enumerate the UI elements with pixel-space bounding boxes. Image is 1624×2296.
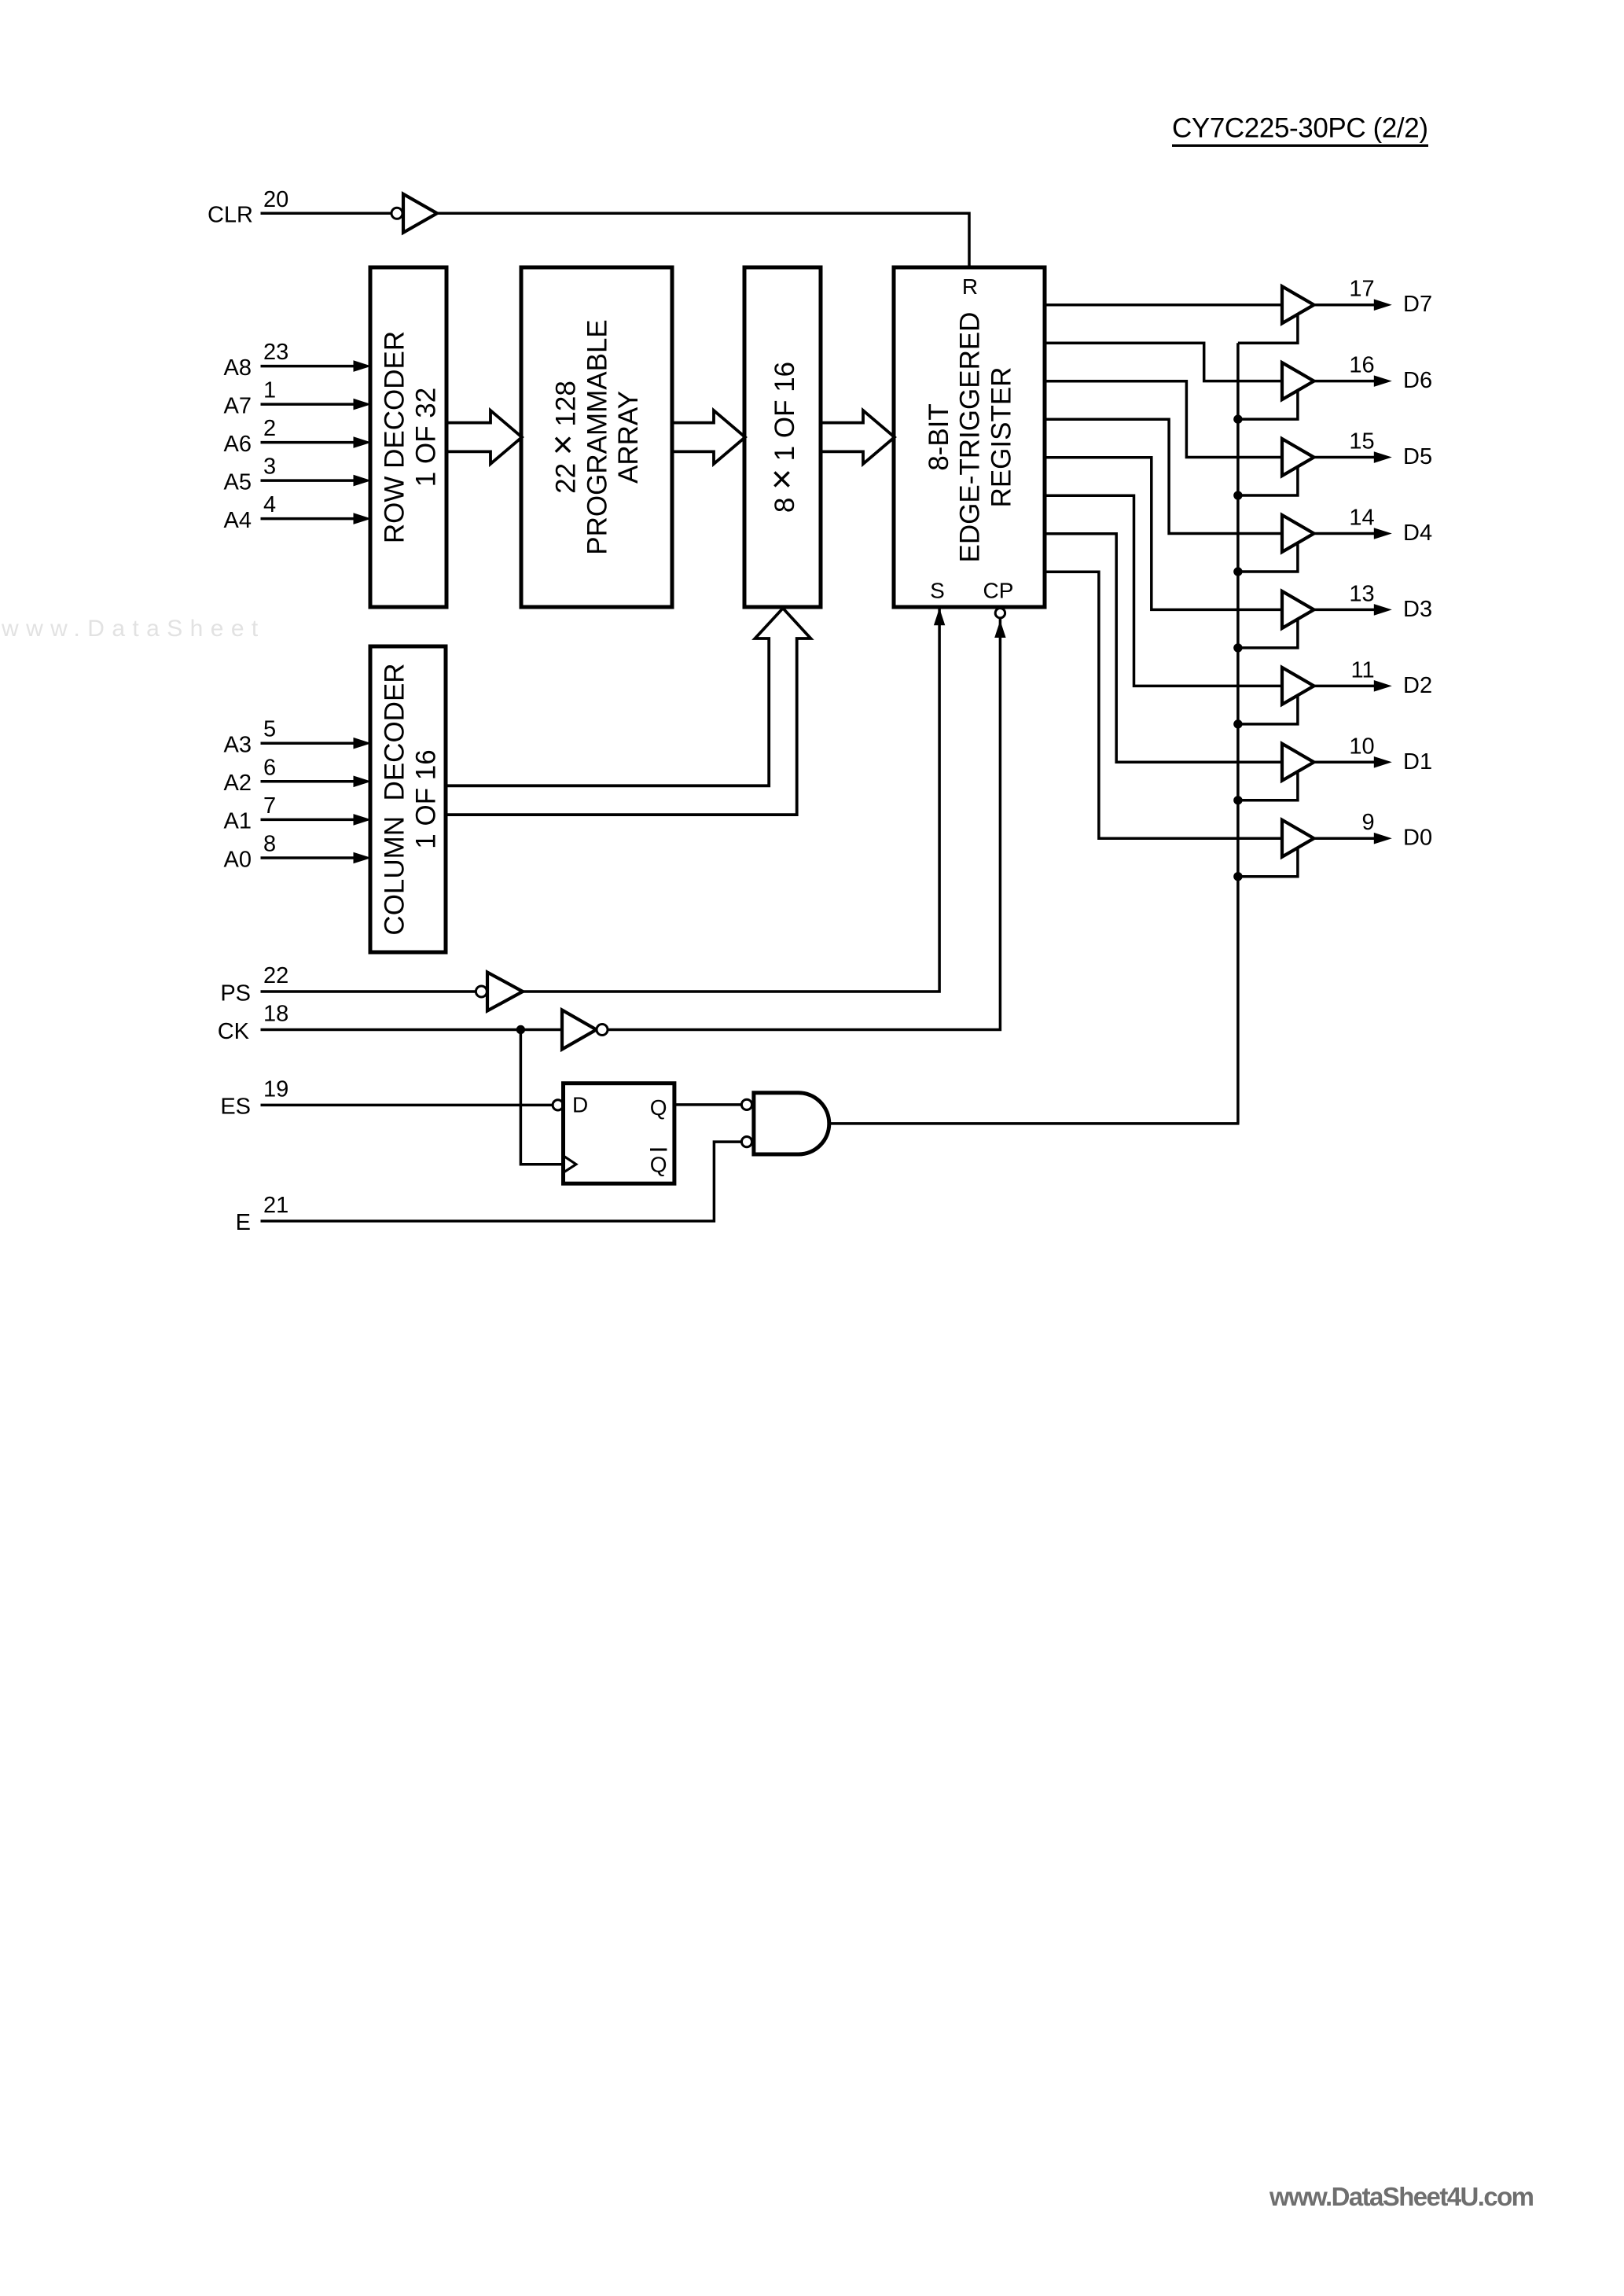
wire D5 output — [1314, 451, 1392, 463]
input label A8 — [224, 355, 252, 381]
svg-text:D0: D0 — [1403, 826, 1432, 851]
junction dot on enable rail at D1 — [1233, 796, 1242, 804]
svg-text:D6: D6 — [1403, 368, 1432, 393]
svg-text:10: 10 — [1349, 734, 1374, 759]
wire A8 into row decoder — [261, 360, 372, 372]
output buffer U7a for D7 — [1282, 286, 1314, 323]
svg-text:PS: PS — [220, 981, 251, 1006]
junction dot on enable rail at D3 — [1233, 643, 1242, 652]
svg-text:A7: A7 — [224, 393, 252, 418]
pin 2 — [263, 416, 276, 441]
svg-text:14: 14 — [1349, 505, 1374, 530]
pin 19 — [263, 1076, 288, 1102]
wire register output Q1 to D1 buffer — [1045, 534, 1284, 763]
pin 14 — [1349, 505, 1374, 530]
svg-text:21: 21 — [263, 1193, 288, 1218]
input label ES — [220, 1095, 251, 1120]
wire enable rail to D3 buffer — [1238, 618, 1298, 648]
pin label S of register — [930, 579, 945, 603]
svg-text:13: 13 — [1349, 581, 1374, 606]
watermark www.DataSheet — [1, 616, 266, 642]
watermark www.DataSheet4U.com — [1269, 2182, 1534, 2211]
input label A7 — [224, 393, 252, 418]
svg-text:6: 6 — [263, 755, 276, 780]
svg-text:R: R — [962, 274, 978, 299]
junction dot on enable rail at D6 — [1233, 414, 1242, 423]
pin 21 — [263, 1193, 288, 1218]
block U1 ROW DECODER 1 OF 32 — [370, 267, 446, 607]
wire AND gate output to enable rail — [829, 1122, 1240, 1125]
pin 23 — [263, 340, 288, 365]
block U3 8 x 1 OF 16 multiplexer — [744, 267, 821, 607]
output buffer U7h for D0 — [1282, 820, 1314, 857]
svg-text:23: 23 — [263, 340, 288, 365]
wire A1 into column decoder — [261, 814, 372, 826]
svg-text:ARRAY: ARRAY — [613, 391, 644, 484]
output label D4 — [1403, 521, 1432, 546]
wire D7 output — [1314, 299, 1392, 311]
wire D4 output — [1314, 528, 1392, 539]
wire enable rail to D1 buffer — [1238, 771, 1298, 800]
junction dot CK node — [516, 1025, 525, 1034]
input label A2 — [224, 771, 252, 796]
svg-text:CY7C225-30PC (2/2): CY7C225-30PC (2/2) — [1172, 113, 1428, 144]
bus arrow column decoder to 8x1 multiplexer — [446, 609, 810, 815]
svg-text:16: 16 — [1349, 353, 1374, 378]
svg-text:Q: Q — [650, 1095, 667, 1120]
pin 5 — [263, 717, 276, 742]
output label D1 — [1403, 749, 1432, 775]
wire flip-flop Q to AND gate — [674, 1103, 742, 1106]
output buffer U7c for D5 — [1282, 439, 1314, 476]
wire A0 into column decoder — [261, 852, 372, 864]
svg-text:19: 19 — [263, 1076, 288, 1102]
pin 1 — [263, 378, 276, 403]
wire enable rail to D4 buffer — [1238, 542, 1298, 572]
output label D2 — [1403, 673, 1432, 698]
svg-text:A2: A2 — [224, 771, 252, 796]
wire output enable rail — [1236, 343, 1240, 1124]
junction dot on enable rail at D2 — [1233, 719, 1242, 728]
bus arrow row decoder to array — [446, 410, 522, 464]
svg-text:ES: ES — [220, 1095, 251, 1120]
wire register output Q6 to D6 buffer — [1045, 343, 1284, 381]
svg-text:D3: D3 — [1403, 597, 1432, 622]
pin 8 — [263, 832, 276, 857]
svg-text:CK: CK — [218, 1019, 250, 1044]
bubble on flip-flop D input — [553, 1100, 563, 1110]
wire D2 output — [1314, 680, 1392, 692]
output label D7 — [1403, 292, 1432, 317]
input label CK — [218, 1019, 250, 1044]
input label A3 — [224, 733, 252, 758]
input label A5 — [224, 469, 252, 495]
svg-text:20: 20 — [263, 187, 288, 212]
svg-text:PROGRAMMABLE: PROGRAMMABLE — [582, 319, 612, 555]
pin 22 — [263, 963, 288, 988]
pin 18 — [263, 1002, 288, 1027]
input label A1 — [224, 809, 252, 834]
svg-text:A4: A4 — [224, 508, 252, 533]
svg-text:D4: D4 — [1403, 521, 1432, 546]
bus arrow 8x1 multiplexer to register — [821, 410, 895, 464]
svg-text:7: 7 — [263, 793, 276, 819]
wire D6 output — [1314, 375, 1392, 387]
junction dot on enable rail at D5 — [1233, 491, 1242, 499]
block U2 22 x 128 PROGRAMMABLE ARRAY — [521, 267, 672, 607]
pin 17 — [1349, 277, 1374, 302]
block U6 COLUMN DECODER 1 OF 16 — [370, 646, 446, 952]
svg-text:E: E — [236, 1210, 251, 1235]
wire register output Q7 to D7 buffer — [1045, 304, 1284, 307]
input label PS — [220, 981, 251, 1006]
wire D0 output — [1314, 833, 1392, 844]
svg-text:D1: D1 — [1403, 749, 1432, 775]
output buffer U7g for D1 — [1282, 744, 1314, 781]
wire register output Q2 to D2 buffer — [1045, 495, 1284, 686]
block U4 8-BIT EDGE-TRIGGERED REGISTER — [894, 267, 1045, 607]
inverter U9 on CK — [562, 1010, 608, 1050]
pin 3 — [263, 454, 276, 480]
wire enable rail to D7 buffer — [1238, 314, 1298, 344]
svg-text:17: 17 — [1349, 277, 1374, 302]
wire PS input — [261, 990, 476, 993]
svg-text:REGISTER: REGISTER — [987, 367, 1017, 508]
wire register output Q4 to D4 buffer — [1045, 419, 1284, 533]
svg-text:S: S — [930, 579, 945, 603]
pin 9 — [1361, 810, 1374, 835]
svg-text:3: 3 — [263, 454, 276, 480]
svg-text:1: 1 — [263, 378, 276, 403]
svg-text:4: 4 — [263, 492, 276, 517]
wire A2 into column decoder — [261, 776, 372, 788]
wire E to AND gate input — [261, 1142, 742, 1221]
svg-text:11: 11 — [1350, 657, 1374, 683]
pin label CP of register — [983, 579, 1014, 603]
wire enable rail to D2 buffer — [1238, 694, 1298, 724]
svg-text:5: 5 — [263, 717, 276, 742]
pin 6 — [263, 755, 276, 780]
wire A5 into row decoder — [261, 475, 372, 487]
input label A6 — [224, 432, 252, 457]
svg-text:A0: A0 — [224, 847, 252, 872]
pin 7 — [263, 793, 276, 819]
svg-text:1 OF 16: 1 OF 16 — [411, 749, 442, 848]
wire ES input — [261, 1104, 553, 1107]
output label D5 — [1403, 444, 1432, 469]
wire CLR input — [261, 212, 392, 215]
junction dot on enable rail at D0 — [1233, 872, 1242, 881]
wire CLR buffer to register R input — [437, 213, 969, 267]
wire CK input — [261, 1028, 563, 1032]
output label D0 — [1403, 826, 1432, 851]
svg-text:A8: A8 — [224, 355, 252, 381]
output buffer U7d for D4 — [1282, 515, 1314, 552]
AND gate U11 — [741, 1093, 829, 1154]
wire enable rail to D0 buffer — [1238, 847, 1298, 877]
svg-text:18: 18 — [263, 1002, 288, 1027]
output buffer U7f for D2 — [1282, 668, 1314, 705]
inverting buffer U8 on PS — [476, 973, 523, 1011]
svg-text:2: 2 — [263, 416, 276, 441]
wire CK node to flip-flop clock — [520, 1030, 563, 1165]
pin 10 — [1349, 734, 1374, 759]
wire A6 into row decoder — [261, 436, 372, 448]
junction dot on enable rail at D4 — [1233, 567, 1242, 576]
inverting buffer U5 on CLR — [391, 194, 437, 233]
svg-text:D: D — [572, 1092, 588, 1117]
input label E — [236, 1210, 251, 1235]
input label A4 — [224, 508, 252, 533]
wire D3 output — [1314, 604, 1392, 616]
pin label R of register — [962, 274, 978, 299]
D flip-flop U10 — [564, 1084, 674, 1184]
input label A0 — [224, 847, 252, 872]
wire register output Q3 to D3 buffer — [1045, 458, 1284, 610]
pin 11 — [1350, 657, 1374, 683]
svg-text:CLR: CLR — [208, 203, 253, 228]
wire A3 into column decoder — [261, 738, 372, 749]
output label D3 — [1403, 597, 1432, 622]
svg-text:8: 8 — [263, 832, 276, 857]
svg-text:www.DataSheet: www.DataSheet — [1, 616, 266, 642]
svg-text:www.DataSheet4U.com: www.DataSheet4U.com — [1269, 2182, 1534, 2211]
output label D6 — [1403, 368, 1432, 393]
wire A7 into row decoder — [261, 399, 372, 410]
wire PS buffer to register S input — [523, 608, 945, 992]
svg-text:D7: D7 — [1403, 292, 1432, 317]
svg-text:Q: Q — [650, 1153, 667, 1177]
wire register output Q0 to D0 buffer — [1045, 572, 1284, 838]
wire register output Q5 to D5 buffer — [1045, 381, 1284, 458]
svg-text:COLUMN DECODER: COLUMN DECODER — [380, 663, 410, 935]
wire CK inverter to register CP input — [608, 618, 1006, 1030]
svg-text:A3: A3 — [224, 733, 252, 758]
title CY7C225-30PC (2/2) — [1172, 113, 1428, 147]
wire D1 output — [1314, 756, 1392, 768]
svg-text:CP: CP — [983, 579, 1014, 603]
bus arrow array to 8x1 multiplexer — [672, 410, 745, 464]
output buffer U7b for D6 — [1282, 362, 1314, 399]
svg-text:1 OF 32: 1 OF 32 — [411, 388, 442, 487]
pin 16 — [1349, 353, 1374, 378]
pin 13 — [1349, 581, 1374, 606]
svg-text:9: 9 — [1361, 810, 1374, 835]
svg-text:8-BIT: 8-BIT — [924, 403, 954, 471]
svg-text:D2: D2 — [1403, 673, 1432, 698]
svg-text:A1: A1 — [224, 809, 252, 834]
svg-text:A6: A6 — [224, 432, 252, 457]
wire enable rail to D5 buffer — [1238, 466, 1298, 496]
svg-text:D5: D5 — [1403, 444, 1432, 469]
svg-text:EDGE-TRIGGERED: EDGE-TRIGGERED — [955, 312, 986, 563]
svg-text:15: 15 — [1349, 429, 1374, 454]
pin 15 — [1349, 429, 1374, 454]
svg-text:22: 22 — [263, 963, 288, 988]
wire enable rail to D6 buffer — [1238, 390, 1298, 420]
pin 4 — [263, 492, 276, 517]
input label CLR — [208, 203, 253, 228]
wire A4 into row decoder — [261, 513, 372, 524]
output buffer U7e for D3 — [1282, 591, 1314, 628]
svg-text:A5: A5 — [224, 469, 252, 495]
bubble on CP input — [995, 609, 1005, 618]
pin 20 — [263, 187, 288, 212]
svg-text:ROW DECODER: ROW DECODER — [380, 331, 410, 543]
